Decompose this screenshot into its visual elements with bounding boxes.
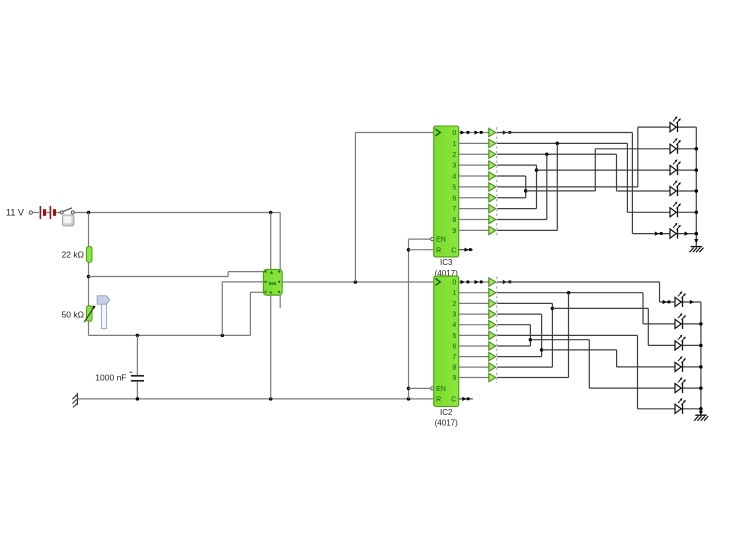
diode D2 <box>489 150 496 158</box>
wire R1 to potentiometer <box>88 262 90 306</box>
net: IC2 output 3 + 7 to LED10 <box>497 313 541 315</box>
IC IC3 (4017 decade counter) <box>434 126 459 257</box>
diode D6 <box>489 194 496 202</box>
diode D1 <box>489 139 496 147</box>
LED L1 <box>670 116 681 132</box>
wire 555 discharge stub <box>279 295 281 308</box>
LED L12 <box>675 398 686 414</box>
current arrows on output 0 <box>461 280 465 284</box>
net: IC3 output 1 + 9 to LED5 <box>497 142 627 144</box>
node IC2 EN <box>407 387 411 391</box>
node out4/out6 join <box>524 189 528 193</box>
LED L6 <box>670 223 681 239</box>
svg-text:2: 2 <box>452 152 456 159</box>
wire ground rail (bottom) <box>77 398 433 400</box>
svg-text:5: 5 <box>452 184 456 191</box>
node out3/out7 join (IC2) <box>540 348 544 352</box>
node cap bottom on ground rail <box>136 397 140 401</box>
svg-text:4: 4 <box>452 322 456 329</box>
svg-text:7: 7 <box>452 354 456 361</box>
potentiometer slider icon <box>97 296 110 329</box>
diode D9 <box>489 226 496 234</box>
wire IC3 R <box>409 249 434 251</box>
net: IC3 output 5 to LED1 <box>497 186 638 188</box>
diode D18 <box>489 363 496 371</box>
diode D7 <box>489 204 496 212</box>
svg-text:EN: EN <box>436 237 446 244</box>
diode D14 <box>489 321 496 329</box>
wire pot bottom <box>88 321 90 335</box>
svg-text:9: 9 <box>452 228 456 235</box>
switch SW1 <box>60 211 63 214</box>
LED L3 <box>670 159 681 175</box>
wire rail down to R1 <box>88 213 90 248</box>
diode D12 <box>489 299 496 307</box>
net: IC2 output 4 + 6 to LED11 <box>497 324 530 326</box>
wire IC output stubs to diodes (bottom) <box>459 281 489 283</box>
node IC3 R <box>407 248 411 252</box>
node out8 joins out2 <box>545 153 549 157</box>
net: IC3 output 2 + 8 to LED4 <box>497 153 616 155</box>
svg-text:555: 555 <box>269 281 277 286</box>
diode D10 <box>489 278 496 286</box>
diode cathode bar (dashed, top) <box>496 127 498 236</box>
wire IC2 output 9 riser <box>497 377 568 379</box>
potentiometer R2 50 kOhm <box>87 306 93 322</box>
wire top LED common rail <box>695 127 697 246</box>
diode D16 <box>489 342 496 350</box>
svg-text:R: R <box>436 247 441 254</box>
net: IC3 output 0 to LED6 <box>497 132 632 134</box>
node clock split <box>354 280 358 284</box>
node out9 joins out1 <box>556 142 560 146</box>
ground left (earth) <box>72 393 77 408</box>
wire positive rail <box>74 212 280 214</box>
wire battery terminal to cells <box>33 212 39 214</box>
svg-text:50 kΩ: 50 kΩ <box>62 309 84 319</box>
svg-text:8: 8 <box>452 217 456 224</box>
diode D15 <box>489 331 496 339</box>
svg-text:2: 2 <box>452 301 456 308</box>
LED L4 <box>670 180 681 196</box>
ground bottom LED rail <box>694 415 708 421</box>
node out2/out8 join (IC2) <box>551 307 555 311</box>
svg-text:6: 6 <box>452 344 456 351</box>
node 555 trigger riser <box>221 334 225 338</box>
wire IC2 output 8 feed <box>497 366 552 368</box>
wire 555 output to IC2 clock <box>282 281 434 283</box>
net: IC2 output 1 + 9 to LED8 <box>497 292 643 294</box>
net: IC2 output 0 to LED7 <box>497 281 659 283</box>
svg-text:R: R <box>436 397 441 404</box>
diode D17 <box>489 352 496 360</box>
LED L10 <box>675 356 686 372</box>
wire bottom LED common rail <box>700 302 702 415</box>
diode D4 <box>489 172 496 180</box>
wire junction to 555 pin 7 (top-left) <box>89 276 229 278</box>
node out4/out6 join (IC2) <box>529 338 533 342</box>
diode D8 <box>489 215 496 223</box>
svg-text:5: 5 <box>452 333 456 340</box>
battery B1 (two cells, 11 V) <box>39 206 41 219</box>
node out3/out7 join <box>535 168 539 172</box>
wire IC2 C stub <box>459 398 473 400</box>
svg-text:22 kΩ: 22 kΩ <box>62 249 84 259</box>
svg-text:1: 1 <box>452 290 456 297</box>
wire IC2 EN <box>409 387 431 389</box>
svg-text:3: 3 <box>452 312 456 319</box>
current arrows on output 0 <box>461 130 465 134</box>
node capacitor tap <box>136 334 140 338</box>
svg-text:11 V: 11 V <box>6 208 24 218</box>
LED L11 <box>675 377 686 393</box>
LED L8 <box>675 313 686 329</box>
svg-text:1000 nF: 1000 nF <box>95 372 126 382</box>
node rail / resistor chain junction <box>87 211 91 215</box>
svg-text:EN: EN <box>436 386 446 393</box>
wire IC3 C stub <box>459 249 473 251</box>
IC IC2 (4017 decade counter) <box>434 276 459 406</box>
pot wiper arrowhead <box>92 306 95 310</box>
net: IC2 output 2 + 8 to LED9 <box>497 302 552 304</box>
wire 555 Vcc risers <box>270 213 272 270</box>
wire cells to switch <box>56 212 60 214</box>
svg-text:(4017): (4017) <box>435 419 458 428</box>
LED L9 <box>675 335 686 351</box>
svg-text:8: 8 <box>452 365 456 372</box>
LED L2 <box>670 138 681 154</box>
svg-text:3: 3 <box>452 163 456 170</box>
diode D19 <box>489 373 496 381</box>
wire IC3 output 9 riser <box>497 229 557 231</box>
wire 555 pin 3 bottom to ground rail <box>270 295 272 399</box>
svg-text:IC2: IC2 <box>440 408 453 417</box>
battery terminal <box>29 211 32 214</box>
net: IC2 output 5 to LED12 <box>497 334 637 336</box>
diode D3 <box>489 161 496 169</box>
ground top LED rail <box>690 247 704 253</box>
svg-text:4: 4 <box>452 174 456 181</box>
diode D11 <box>489 289 496 297</box>
svg-text:7: 7 <box>452 206 456 213</box>
LED L5 <box>670 202 681 218</box>
diode cathode bar (dashed, bottom) <box>496 277 498 384</box>
diode D0 <box>489 128 496 136</box>
svg-text:IC3: IC3 <box>440 258 453 267</box>
svg-text:C: C <box>451 247 456 254</box>
svg-text:0: 0 <box>452 130 456 137</box>
wire IC3 EN <box>409 238 431 240</box>
wire enable/reset vertical net <box>408 239 410 399</box>
svg-text:9: 9 <box>452 375 456 382</box>
node out9 joins out1 (IC2) <box>567 291 571 295</box>
LED L7 <box>675 291 686 307</box>
svg-text:0: 0 <box>452 280 456 287</box>
wire clock riser to IC3 <box>354 133 356 283</box>
resistor R1 22 kOhm <box>87 247 93 263</box>
svg-text:C: C <box>451 397 456 404</box>
diode D5 <box>489 183 496 191</box>
node reset net on rail <box>407 397 411 401</box>
node rail / 555 Vcc junction <box>269 211 273 215</box>
svg-text:1: 1 <box>452 141 456 148</box>
net: IC3 output 4 + 6 to LED2 <box>497 175 526 177</box>
wire to 555 pin 6 (bottom-left) <box>249 292 251 335</box>
wire IC3 output 8 riser <box>497 219 547 221</box>
node 555 ground on rail <box>269 397 273 401</box>
wire pot bottom horizontal net <box>89 334 251 336</box>
svg-text:6: 6 <box>452 195 456 202</box>
capacitor C1 1000 nF <box>136 335 138 375</box>
wire IC output stubs to diodes (top) <box>459 132 489 134</box>
net: IC3 output 3 + 7 to LED3 <box>497 164 536 166</box>
diode D13 <box>489 310 496 318</box>
node R1 bottom / 555 feed <box>87 275 91 279</box>
wire riser to 555 pin 2 (left-middle) <box>221 282 223 336</box>
